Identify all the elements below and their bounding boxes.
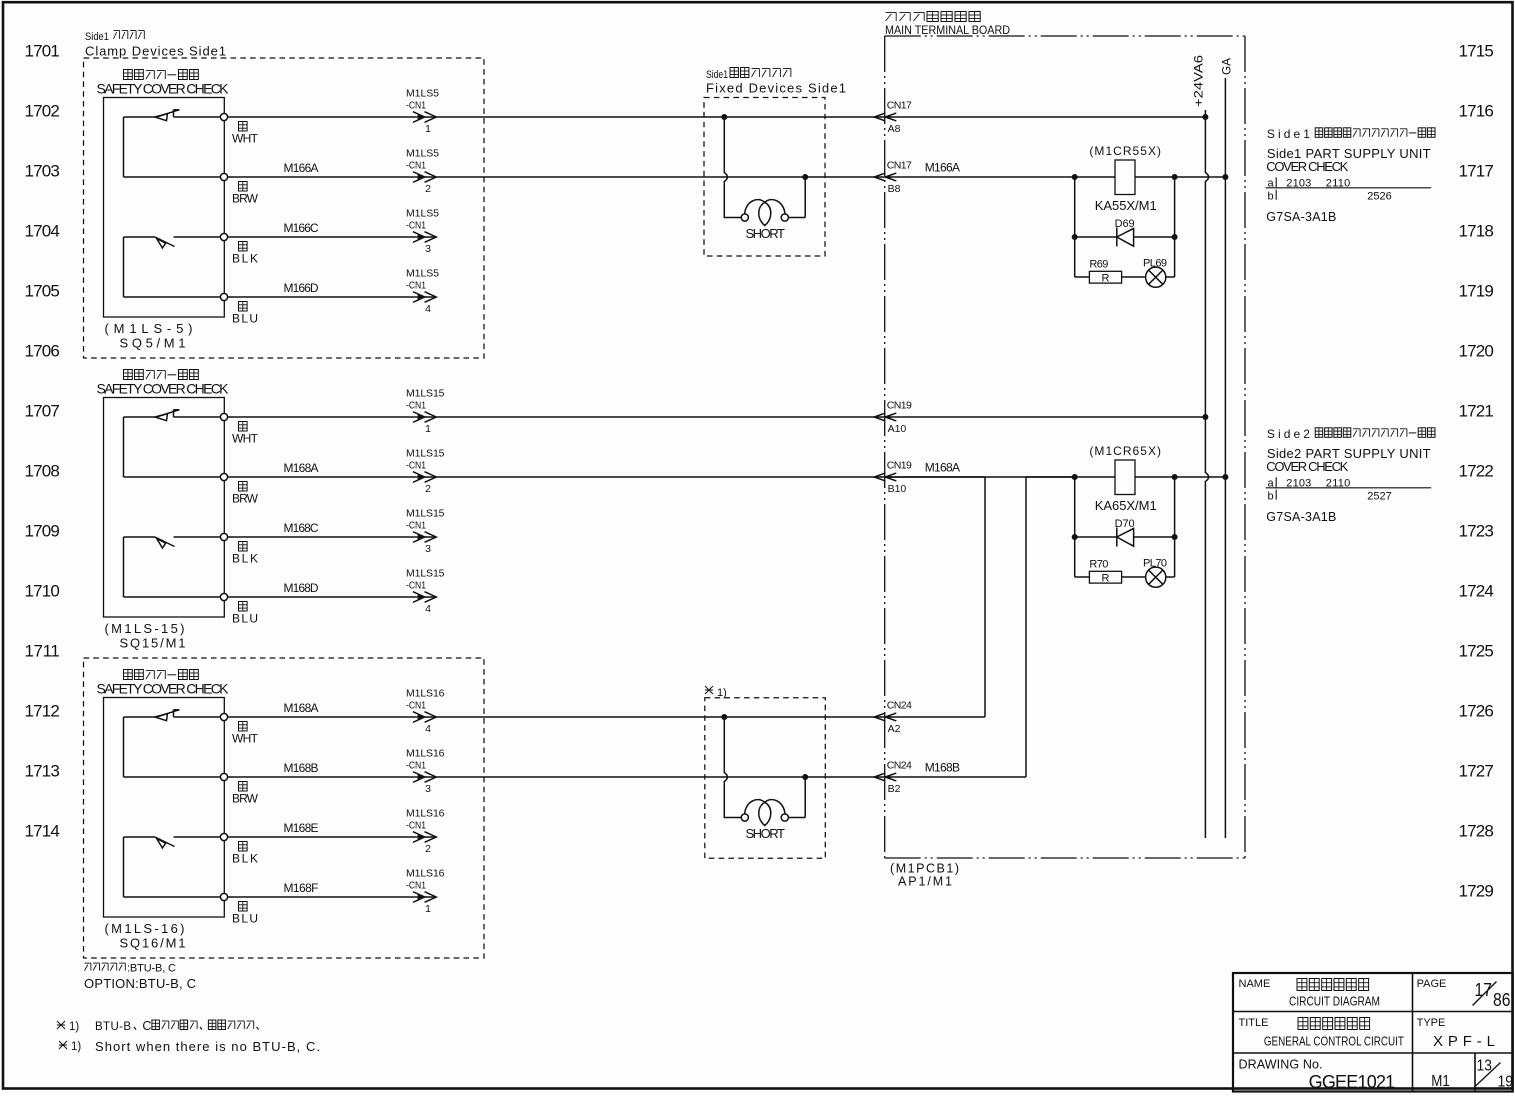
svg-text:CN19: CN19 (887, 460, 912, 472)
title page number 17/86 (1473, 980, 1511, 1010)
node row label 1708 (25, 462, 60, 481)
svg-text:SAFETY COVER CHECK: SAFETY COVER CHECK (97, 681, 230, 697)
label (M1CR65X) (1089, 444, 1161, 458)
contact table b row side1 (1268, 190, 1392, 203)
svg-text:1725: 1725 (1459, 642, 1494, 661)
switch SQ5/M1 internal link pin3-4 (123, 237, 125, 297)
title NAME label (1239, 978, 1271, 990)
header Fixed Devices Side1 (706, 81, 846, 96)
colour kanji 青 row 4 (239, 602, 248, 612)
svg-text:1720: 1720 (1459, 342, 1494, 361)
connector M1LS5-CN1 pin 1 row 1 (406, 88, 439, 136)
dashed box option BTU block (84, 658, 485, 958)
svg-text:1702: 1702 (25, 102, 60, 121)
svg-text:1707: 1707 (25, 402, 60, 421)
title PAGE label (1417, 978, 1447, 990)
node row label 1720 (1459, 342, 1494, 361)
svg-text:SHORT: SHORT (745, 226, 785, 241)
title GENERAL CONTROL CIRCUIT (1264, 1035, 1404, 1049)
node row label 1718 (1459, 222, 1494, 241)
svg-text:1711: 1711 (25, 642, 60, 661)
svg-text:1709: 1709 (25, 522, 60, 541)
switch SQ16/M1 NO contact (124, 837, 221, 848)
connector M1LS5-CN1 pin 2 row 2 (406, 148, 439, 196)
label R value in R70 (1102, 573, 1110, 585)
resistor R69 box (1089, 271, 1121, 283)
label note ref *1 (705, 686, 727, 699)
svg-text:1714: 1714 (25, 822, 60, 841)
node row label 1729 (1459, 882, 1494, 901)
svg-text:BLK: BLK (232, 552, 258, 566)
svg-text:SQ16/M1: SQ16/M1 (120, 936, 186, 951)
wire label M168C (284, 521, 319, 535)
node row label 1716 (1459, 102, 1494, 121)
svg-text:(M1CR65X): (M1CR65X) (1089, 444, 1161, 458)
wire to relay KA55X/M1 left (885, 176, 1115, 178)
switch SQ16/M1 terminal circle 4 (220, 893, 227, 900)
svg-text:-CN1: -CN1 (406, 580, 426, 592)
svg-text:Short when there is no BTU-B,: Short when there is no BTU-B, C. (95, 1039, 320, 1054)
colour label WHT row 1 (232, 732, 259, 746)
switch SQ16/M1 NC contact (124, 710, 221, 721)
switch SQ5/M1 NC contact (124, 110, 221, 121)
contact table a row side2 (1268, 477, 1351, 489)
svg-text:Fixed Devices Side1: Fixed Devices Side1 (706, 81, 846, 96)
node row label 1719 (1459, 282, 1494, 301)
title block h-line 1 (1233, 1011, 1513, 1013)
connector CN19 pin B10 (874, 460, 912, 496)
node row label 1717 (1459, 162, 1494, 181)
svg-text:-CN1: -CN1 (406, 460, 426, 472)
svg-text:(M1LS-15): (M1LS-15) (105, 621, 185, 636)
svg-text:CIRCUIT DIAGRAM: CIRCUIT DIAGRAM (1289, 995, 1380, 1009)
svg-text:M1LS16: M1LS16 (406, 748, 445, 760)
wire M168A vertical to CN24-A2 (984, 477, 986, 717)
label (M1LS-15) (105, 621, 185, 636)
colour label BLK row 3 (232, 252, 258, 266)
connector M1LS16-CN1 pin 2 row 3 (406, 808, 445, 856)
connector M1LS5-CN1 pin 4 row 4 (406, 268, 439, 316)
colour kanji 白 row 1 (239, 722, 248, 732)
node row label 1728 (1459, 822, 1494, 841)
node row label 1712 (25, 702, 60, 721)
svg-text:3: 3 (425, 243, 431, 255)
switch SQ16/M1 internal link pin1-2 (123, 717, 125, 777)
svg-text:1703: 1703 (25, 162, 60, 181)
pilot lamp PL70 (1146, 567, 1166, 587)
svg-text:BLK: BLK (232, 252, 258, 266)
wire CN19-B10 horizontal (885, 476, 985, 478)
svg-text:M168A: M168A (925, 460, 960, 474)
wire CN24-B2 horizontal (885, 776, 1026, 778)
label (M1LS-5) (105, 321, 193, 336)
svg-text:1701: 1701 (25, 42, 60, 61)
svg-text:COVER CHECK: COVER CHECK (1266, 459, 1348, 474)
branch left vertical KA55X/M1 (1074, 177, 1076, 277)
svg-text:1704: 1704 (25, 222, 60, 241)
colour kanji 青 row 4 (239, 902, 248, 912)
svg-text:+24VA6: +24VA6 (1194, 55, 1206, 107)
svg-text:SAFETY COVER CHECK: SAFETY COVER CHECK (97, 81, 230, 97)
svg-text:XPF-L: XPF-L (1433, 1033, 1495, 1050)
svg-text:M1: M1 (1431, 1073, 1450, 1090)
node row label 1713 (25, 762, 60, 781)
title JP 総合制御回路 (1298, 1018, 1370, 1030)
label (M1PCB1) (890, 862, 959, 876)
svg-text:M168F: M168F (284, 881, 319, 895)
svg-text:M1LS16: M1LS16 (406, 868, 445, 880)
svg-text::BTU-B, C: :BTU-B, C (127, 963, 176, 975)
short jumper plug 1 (721, 114, 808, 241)
node row label 1702 (25, 102, 60, 121)
svg-text:-CN1: -CN1 (406, 700, 426, 712)
svg-text:b: b (1268, 191, 1274, 203)
svg-text:1706: 1706 (25, 342, 60, 361)
connector CN19 pin A10 (874, 400, 912, 436)
node row label 1721 (1459, 402, 1494, 421)
wire lamp PL69 to branch (1166, 276, 1175, 278)
relay coil M1CR55X box (1115, 160, 1135, 195)
switch SQ5/M1 lead pin2 (124, 176, 221, 178)
label M166A at CN17 (925, 160, 960, 174)
svg-text:3: 3 (425, 783, 431, 795)
colour kanji 青 row 4 (239, 302, 248, 312)
svg-text:1722: 1722 (1459, 462, 1494, 481)
svg-text:BLU: BLU (232, 912, 258, 926)
branch right vertical KA65X/M1 (1174, 477, 1176, 577)
switch SQ15/M1 NO contact (124, 537, 221, 548)
svg-text:1729: 1729 (1459, 882, 1494, 901)
svg-text:17: 17 (1475, 980, 1493, 1000)
dashed box Clamp Devices Side1 (84, 58, 485, 358)
svg-text:1721: 1721 (1459, 402, 1494, 421)
svg-text:2527: 2527 (1367, 491, 1392, 503)
switch SQ5/M1 terminal circle 4 (220, 293, 227, 300)
limit switch SQ16/M1 body box (104, 698, 225, 918)
note *1 JP (57, 1019, 259, 1033)
label AP1/M1 (898, 875, 952, 889)
svg-text:BLU: BLU (232, 312, 258, 326)
svg-text:B10: B10 (888, 483, 907, 495)
svg-text:1705: 1705 (25, 282, 60, 301)
node row label 1710 (25, 582, 60, 601)
node dot wire1707 on +24VA6 (1202, 414, 1208, 420)
contact table rule side1 (1266, 187, 1432, 189)
switch SQ16/M1 lead pin2 (124, 776, 221, 778)
svg-text:M166D: M166D (284, 281, 319, 295)
connector M1LS15-CN1 pin 4 row 4 (406, 568, 445, 616)
svg-text:M1LS15: M1LS15 (406, 508, 445, 520)
svg-text:M168E: M168E (284, 821, 319, 835)
svg-text:1728: 1728 (1459, 822, 1494, 841)
wire lamp PL70 to branch (1166, 576, 1175, 578)
title JP 電気回路線図 (1297, 979, 1369, 991)
header JP 安全カバー確認 block 3 (124, 670, 199, 680)
wire 1707 WHT to CN19-A10 (228, 416, 885, 418)
wire to resistor R70 (1075, 576, 1090, 578)
svg-text:D70: D70 (1115, 518, 1135, 530)
node dot diode D69 left (1072, 234, 1078, 240)
svg-text:1717: 1717 (1459, 162, 1494, 181)
node row label 1725 (1459, 642, 1494, 661)
wire M168B vertical from CN24-B2 (1025, 477, 1027, 777)
connector M1LS5-CN1 pin 3 row 3 (406, 208, 439, 256)
svg-text:GENERAL CONTROL CIRCUIT: GENERAL CONTROL CIRCUIT (1264, 1035, 1404, 1049)
terminal board border left (884, 36, 886, 858)
svg-text:CN24: CN24 (887, 700, 912, 712)
svg-text:1723: 1723 (1459, 522, 1494, 541)
note Side1 JP title (1267, 127, 1435, 141)
label +24VA6 rotated (1194, 55, 1206, 107)
svg-text:(M1CR55X): (M1CR55X) (1089, 144, 1161, 158)
svg-text:4: 4 (425, 723, 431, 735)
svg-text:TYPE: TYPE (1417, 1017, 1446, 1029)
colour label BLK row 3 (232, 552, 258, 566)
svg-text:2: 2 (425, 183, 431, 195)
node row label 1714 (25, 822, 60, 841)
title CIRCUIT DIAGRAM (1289, 995, 1380, 1009)
svg-text:1710: 1710 (25, 582, 60, 601)
diode D69 wire right (1134, 236, 1175, 238)
svg-text:B8: B8 (888, 183, 901, 195)
svg-text:M1LS16: M1LS16 (406, 688, 445, 700)
node row label 1711 (25, 642, 60, 661)
diode D70 anode wire (1075, 536, 1117, 538)
title block v-line main (1412, 973, 1414, 1092)
connector M1LS16-CN1 pin 1 row 4 (406, 868, 445, 916)
diode D69 triangle (1117, 228, 1134, 246)
wire 1702 WHT to CN17-A8 (228, 116, 885, 118)
node row label 1707 (25, 402, 60, 421)
limit switch SQ5/M1 body box (104, 98, 225, 318)
svg-text:1716: 1716 (1459, 102, 1494, 121)
limit switch SQ15/M1 body box (104, 398, 225, 618)
switch SQ16/M1 lead pin4 (124, 896, 221, 898)
node row label 1709 (25, 522, 60, 541)
node dot diode D69 right (1172, 234, 1178, 240)
svg-text:1: 1 (425, 123, 431, 135)
wire 1705 M166D stub (228, 296, 436, 298)
wire 1703 M166A to CN17-B8 (228, 176, 885, 178)
contact table b row side2 (1268, 490, 1392, 503)
svg-text:86: 86 (1493, 990, 1511, 1010)
svg-text:D69: D69 (1115, 218, 1135, 230)
svg-text:Clamp Devices Side1: Clamp Devices Side1 (85, 44, 226, 59)
connector CN24 pin B2 (874, 760, 912, 796)
label SQ16/M1 (120, 936, 186, 951)
svg-text:(M1LS-5): (M1LS-5) (105, 321, 193, 336)
colour kanji 白 row 1 (239, 422, 248, 432)
svg-text:1: 1 (425, 423, 431, 435)
wire 1704 M166C stub (228, 236, 436, 238)
wire 1709 M168C stub (228, 536, 436, 538)
svg-text:-CN1: -CN1 (406, 100, 426, 112)
label M168A at CN19 (925, 460, 960, 474)
node dot right branch KA55X/M1 (1172, 174, 1178, 180)
wire 1710 M168D stub (228, 596, 436, 598)
wire M168B to relay KA65X (1026, 476, 1075, 478)
label GA rotated (1222, 58, 1234, 75)
svg-text:MAIN TERMINAL BOARD: MAIN TERMINAL BOARD (885, 23, 1010, 37)
svg-text:R70: R70 (1089, 559, 1108, 571)
svg-text:KA65X/M1: KA65X/M1 (1095, 498, 1157, 513)
diode D69 cathode bar (1116, 228, 1118, 247)
header SAFETY COVER CHECK block 2 (97, 381, 230, 397)
label OPTION:BTU-B, C (84, 976, 196, 991)
svg-text:1726: 1726 (1459, 702, 1494, 721)
wire resistor R69 to lamp PL69 (1122, 276, 1146, 278)
label M168B at CN24 (925, 760, 960, 774)
svg-text:1: 1 (425, 903, 431, 915)
diode D70 triangle (1117, 528, 1134, 546)
short jumper plug 2 (721, 714, 808, 841)
node dot KA55X/M1 to GA rail (1222, 174, 1228, 180)
node row label 1724 (1459, 582, 1494, 601)
svg-text:M168D: M168D (284, 581, 319, 595)
svg-text:M1LS15: M1LS15 (406, 388, 445, 400)
node dot left branch KA65X/M1 (1072, 474, 1078, 480)
title sheet 13/19 (1475, 1058, 1514, 1091)
node row label 1722 (1459, 462, 1494, 481)
terminal board border bottom (885, 857, 1245, 859)
wire relay KA65X/M1 right (1135, 476, 1225, 478)
svg-text:BRW: BRW (232, 492, 259, 506)
wire label M166D (284, 281, 319, 295)
colour label BLK row 3 (232, 852, 258, 866)
node dot diode D70 left (1072, 534, 1078, 540)
svg-text:M1LS5: M1LS5 (406, 88, 439, 100)
wire 1713 M168B to CN24-B2 (228, 776, 885, 778)
svg-text:1712: 1712 (25, 702, 60, 721)
label D69 (1115, 218, 1135, 230)
colour label BRW row 2 (232, 492, 259, 506)
colour kanji 黒 row 3 (239, 542, 248, 552)
branch left vertical KA65X/M1 (1074, 477, 1076, 577)
header SAFETY COVER CHECK block 3 (97, 681, 230, 697)
switch SQ5/M1 terminal circle 2 (220, 173, 227, 180)
svg-text:2: 2 (425, 483, 431, 495)
svg-text:2: 2 (425, 843, 431, 855)
wire label M168B (284, 761, 319, 775)
svg-text:M1LS5: M1LS5 (406, 208, 439, 220)
switch SQ15/M1 terminal circle 3 (220, 533, 227, 540)
connector M1LS16-CN1 pin 3 row 2 (406, 748, 445, 796)
switch SQ16/M1 terminal circle 2 (220, 773, 227, 780)
title block h-line 2 (1233, 1052, 1513, 1054)
colour kanji 茶 row 2 (239, 782, 248, 792)
label relay type G7SA-3A1B side2 (1266, 510, 1336, 524)
wire 1712 M168A to CN24-A2 (228, 716, 885, 718)
switch SQ16/M1 terminal circle 1 (220, 713, 227, 720)
relay coil M1CR65X box (1115, 460, 1135, 495)
wire to relay KA65X/M1 left (885, 476, 1115, 478)
note COVER CHECK side1 (1266, 159, 1348, 174)
svg-text:3: 3 (425, 543, 431, 555)
node row label 1723 (1459, 522, 1494, 541)
svg-text:-CN1: -CN1 (406, 220, 426, 232)
contact table rule side2 (1266, 487, 1432, 489)
svg-text:1727: 1727 (1459, 762, 1494, 781)
svg-text:BRW: BRW (232, 792, 259, 806)
svg-text:4: 4 (425, 303, 431, 315)
label KA65X/M1 (1095, 498, 1157, 513)
svg-text:M1LS16: M1LS16 (406, 808, 445, 820)
diode D69 anode wire (1075, 236, 1117, 238)
label PL69 (1143, 258, 1167, 270)
connector M1LS16-CN1 pin 4 row 1 (406, 688, 445, 736)
label PL70 (1143, 558, 1167, 570)
svg-text:M1LS15: M1LS15 (406, 568, 445, 580)
switch SQ5/M1 terminal circle 3 (220, 233, 227, 240)
svg-text:M166A: M166A (925, 160, 960, 174)
svg-text:KA55X/M1: KA55X/M1 (1095, 198, 1157, 213)
switch SQ5/M1 internal link pin1-2 (123, 117, 125, 177)
label R69 (1089, 259, 1108, 271)
wire label M168D (284, 581, 319, 595)
svg-text:A8: A8 (888, 123, 901, 135)
colour label WHT row 1 (232, 432, 259, 446)
svg-text:M166A: M166A (284, 161, 319, 175)
svg-text:-CN1: -CN1 (406, 160, 426, 172)
node dot right branch KA65X/M1 (1172, 474, 1178, 480)
colour kanji 茶 row 2 (239, 482, 248, 492)
switch SQ16/M1 terminal circle 3 (220, 833, 227, 840)
pilot lamp PL69 (1146, 267, 1166, 287)
svg-text:BLK: BLK (232, 852, 258, 866)
node dot left branch KA55X/M1 (1072, 174, 1078, 180)
node dot KA65X/M1 to GA rail (1222, 474, 1228, 480)
svg-text:1): 1) (71, 1041, 81, 1053)
node row label 1727 (1459, 762, 1494, 781)
switch SQ15/M1 terminal circle 1 (220, 413, 227, 420)
svg-text:Side2: Side2 (1267, 427, 1310, 441)
wire label M168A (284, 701, 319, 715)
svg-text:1719: 1719 (1459, 282, 1494, 301)
svg-text:BLU: BLU (232, 612, 258, 626)
wire label M166C (284, 221, 319, 235)
label (M1LS-16) (105, 921, 185, 936)
title block frame (1233, 973, 1513, 1092)
svg-text:M168A: M168A (284, 701, 319, 715)
svg-text:GA: GA (1222, 58, 1234, 75)
note Side2 JP title (1267, 427, 1435, 441)
svg-text:Side1: Side1 (1267, 127, 1310, 141)
svg-text:C: C (142, 1019, 151, 1033)
svg-text:CN17: CN17 (887, 100, 912, 112)
wire relay KA55X/M1 right (1135, 176, 1225, 178)
colour label BLU row 4 (232, 312, 258, 326)
svg-text:WHT: WHT (232, 132, 259, 146)
wire M168F stub (228, 896, 436, 898)
switch SQ5/M1 NO contact (124, 237, 221, 248)
svg-text:B2: B2 (888, 783, 901, 795)
svg-text:COVER CHECK: COVER CHECK (1266, 159, 1348, 174)
colour kanji 黒 row 3 (239, 842, 248, 852)
svg-text:TITLE: TITLE (1239, 1017, 1269, 1029)
label SQ15/M1 (120, 636, 186, 651)
colour label BRW row 2 (232, 792, 259, 806)
svg-text:-CN1: -CN1 (406, 760, 426, 772)
wire label M168A (284, 461, 319, 475)
svg-text:PAGE: PAGE (1417, 978, 1447, 990)
switch SQ15/M1 lead pin2 (124, 476, 221, 478)
switch SQ15/M1 internal link pin1-2 (123, 417, 125, 477)
switch SQ5/M1 terminal circle 1 (220, 113, 227, 120)
connector CN17 pin B8 (874, 160, 912, 196)
svg-text:BRW: BRW (232, 192, 259, 206)
contact table a row side1 (1268, 177, 1351, 189)
svg-text:Side1: Side1 (706, 69, 728, 81)
